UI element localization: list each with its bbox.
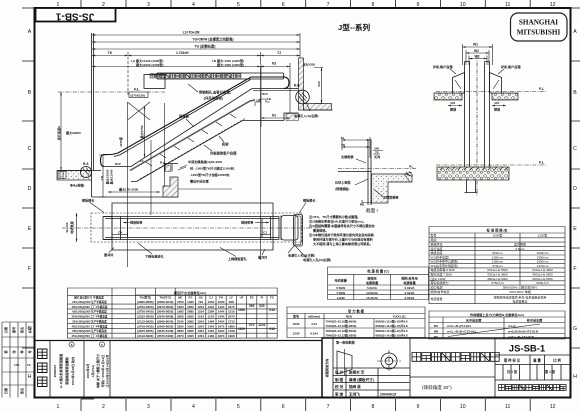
svg-text:最大11000: 最大11000 — [109, 169, 114, 184]
svg-text:655(-202)@500 生产半模高度: 655(-202)@500 生产半模高度 — [72, 329, 107, 333]
svg-text:标记: 标记 — [27, 326, 32, 334]
svg-text:电源引入(1)(右侧): 电源引入(1)(右侧) — [294, 113, 318, 118]
svg-text:5: 5 — [237, 2, 240, 8]
svg-text:护机,客户自理.: 护机,客户自理. — [501, 64, 521, 69]
ceiling opening label band — [150, 74, 241, 78]
section verticals — [127, 102, 129, 267]
svg-text:比 例: 比 例 — [553, 358, 561, 363]
svg-text:日期: 日期 — [3, 327, 8, 333]
svg-text:P.L: P.L — [409, 165, 414, 169]
svg-text:最大9750: 最大9750 — [139, 125, 144, 138]
svg-text:1996: 1996 — [228, 334, 235, 338]
svg-text:楼见尺寸(长度单位mm): 楼见尺寸(长度单位mm) — [174, 290, 206, 295]
svg-text:W1: W1 — [473, 43, 478, 47]
svg-text:920: 920 — [259, 304, 265, 308]
svg-text:254(-200)@500 生产半模高度: 254(-200)@500 生产半模高度 — [72, 300, 107, 304]
top support bracket — [284, 113, 299, 121]
svg-text:赵根木 艺: 赵根木 艺 — [348, 370, 365, 375]
svg-text:(3340-5848): (3340-5848) — [157, 315, 173, 319]
svg-text:(3113-5920): (3113-5920) — [137, 334, 153, 338]
svg-text::1200型TK尺寸也超13500时,: :1200型TK尺寸也超13500时, — [190, 172, 230, 177]
svg-text:外部装饰客户自理: 外部装饰客户自理 — [210, 151, 237, 156]
svg-text:2004年9月: 2004年9月 — [85, 364, 90, 379]
svg-text:12: 12 — [550, 2, 556, 8]
svg-text:TK(型号): TK(型号) — [140, 295, 152, 300]
svg-text:655(-200)@500 生产半模高度: 655(-200)@500 生产半模高度 — [72, 310, 107, 314]
svg-text:G: G — [573, 326, 577, 332]
svg-text:7: 7 — [327, 404, 330, 410]
svg-text:R.A: R.A — [83, 162, 89, 166]
svg-text:(2970-5635): (2970-5635) — [157, 305, 173, 309]
svg-text:2685: 2685 — [187, 310, 194, 314]
svg-text:9: 9 — [416, 2, 419, 8]
svg-text:2004年2月28日 轨内: 2004年2月28日 轨内 — [70, 357, 75, 385]
ceiling opening strip — [157, 73, 284, 79]
svg-text:JS-SB-1: JS-SB-1 — [509, 344, 546, 355]
svg-text:2.0kVA: 2.0kVA — [404, 296, 415, 300]
main drawing title 自动扶梯土建布置图 — [412, 353, 499, 362]
svg-text:6750人/h: 6750人/h — [491, 281, 504, 285]
svg-text:13.6kVA: 13.6kVA — [366, 291, 379, 295]
svg-text:970: 970 — [249, 323, 255, 327]
svg-text:10: 10 — [460, 404, 466, 410]
svg-text:TJ: TJ — [277, 51, 281, 55]
left vertical dim H — [60, 92, 62, 171]
svg-text:②2006年10月14日25井: ②2006年10月14日25井 — [105, 355, 110, 388]
svg-text:C: C — [28, 146, 32, 152]
svg-text:有中间支撑: 有中间支撑 — [527, 318, 543, 323]
svg-text:6002(2+13.9踏+10)平9.8: 6002(2+13.9踏+10)平9.8 — [376, 323, 408, 328]
svg-text:2475: 2475 — [218, 324, 225, 328]
svg-text:950: 950 — [249, 304, 255, 308]
svg-text:440: 440 — [450, 101, 455, 105]
ceiling beam rect — [144, 75, 165, 89]
svg-text:1710: 1710 — [228, 319, 235, 323]
svg-text:11kW: 11kW — [337, 296, 345, 300]
svg-text:1: 1 — [57, 404, 60, 410]
ruler numbers top — [57, 2, 556, 8]
svg-text:9000人/h: 9000人/h — [536, 281, 549, 285]
svg-text:照明,信号用: 照明,信号用 — [401, 276, 417, 281]
upper floor slab right — [304, 104, 332, 111]
svg-text:电 源 容 量 (C): 电 源 容 量 (C) — [367, 269, 388, 274]
svg-text:1100: 1100 — [238, 327, 245, 331]
svg-text:图号: 图号 — [11, 327, 16, 333]
svg-text:2.0kVA: 2.0kVA — [404, 291, 415, 295]
svg-text:6: 6 — [101, 343, 103, 347]
svg-text:H: H — [573, 374, 577, 380]
svg-text:12: 12 — [550, 404, 556, 410]
svg-text:型号: 型号 — [293, 313, 299, 318]
svg-text:8: 8 — [372, 404, 375, 410]
comb lines left/right — [121, 217, 271, 240]
svg-text:梯控用: 梯控用 — [367, 276, 376, 281]
svg-text:(2940-6055): (2940-6055) — [157, 324, 173, 328]
svg-text:1384: 1384 — [208, 310, 215, 314]
svg-text:使用环境: 使用环境 — [431, 241, 443, 246]
civil dimension table — [68, 288, 278, 338]
svg-text:145: 145 — [14, 363, 19, 367]
svg-text:室内两侧: 室内两侧 — [514, 241, 526, 246]
svg-text:14: 14 — [140, 159, 144, 163]
top-left drawing number box JS-SB-1 (rotated) — [36, 8, 116, 22]
svg-text:电源容量表: 电源容量表 — [512, 298, 527, 303]
notes column label 备注栏 — [38, 349, 48, 387]
columns — [465, 62, 490, 181]
svg-text:1254: 1254 — [197, 324, 204, 328]
svg-text:动力电源: 动力电源 — [431, 285, 443, 290]
svg-text:号: 号 — [27, 350, 32, 353]
svg-text:2.0kVA: 2.0kVA — [404, 286, 415, 290]
svg-text:5.5kW: 5.5kW — [336, 286, 345, 290]
svg-text:1000型: 1000型 — [493, 233, 503, 238]
svg-text:图 样 标 记: 图 样 标 记 — [504, 358, 521, 363]
svg-text:455(-200)@500 工厂4平模高度: 455(-200)@500 工厂4平模高度 — [72, 305, 108, 309]
svg-text:(2970-5655): (2970-5655) — [137, 329, 153, 333]
svg-text:CJ: CJ — [209, 296, 213, 300]
svg-text:380V,50Hz 三相交流380V: 380V,50Hz 三相交流380V — [503, 285, 537, 290]
svg-text:0.5m/s: 0.5m/s — [515, 247, 525, 251]
svg-text:注4)本梯仅适用于使用环境为室内完全自动扶梯,: 注4)本梯仅适用于使用环境为室内完全自动扶梯, — [309, 232, 375, 237]
svg-text:1134: 1134 — [208, 315, 215, 319]
escalator handrail line — [101, 155, 113, 167]
upper F.L — [436, 91, 546, 93]
company name 上海三菱电梯有限公司 — [499, 385, 567, 391]
svg-text:紧固梯面等紧固螺栓: 紧固梯面等紧固螺栓 — [64, 356, 69, 385]
svg-text:6: 6 — [282, 404, 285, 410]
cross mark at ceiling opening — [128, 102, 151, 120]
first angle projection symbols — [337, 351, 352, 374]
svg-text:9: 9 — [416, 404, 419, 410]
svg-text:装潢板: 装潢板 — [178, 114, 190, 119]
svg-text:1.732xH: 1.732xH — [176, 51, 189, 55]
svg-text:电机功率等 5.5kW: 电机功率等 5.5kW — [431, 267, 456, 272]
svg-text:图面规格。: 图面规格。 — [313, 228, 328, 233]
svg-text:2475: 2475 — [228, 305, 235, 309]
W+100 pit width dim — [76, 213, 78, 242]
svg-text:CK: CK — [118, 231, 123, 235]
svg-text:7840(23+15,10踏;6500): 7840(23+15,10踏;6500) — [326, 328, 357, 333]
svg-text:M1: M1 — [360, 203, 365, 207]
left wall double line — [92, 33, 94, 197]
svg-text:FG: FG — [267, 97, 272, 101]
svg-text:注1)TG、TK尺寸需要将小数点整理。: 注1)TG、TK尺寸需要将小数点整理。 — [309, 214, 360, 219]
svg-text:规格架等: 规格架等 — [241, 220, 254, 225]
svg-text:1000: 1000 — [238, 308, 245, 312]
svg-text:1054: 1054 — [197, 305, 204, 309]
svg-text:用途: 用途 — [431, 237, 437, 242]
svg-text:最大5200: 最大5200 — [302, 62, 315, 67]
N1 dim under top landing — [261, 117, 290, 119]
svg-text:1060: 1060 — [218, 300, 225, 304]
svg-text:电源容量: 电源容量 — [403, 280, 416, 285]
svg-text:440: 440 — [494, 101, 499, 105]
svg-text:共 1 张: 共 1 张 — [507, 369, 518, 374]
svg-text:2341≤ H≤ 5500: 2341≤ H≤ 5500 — [487, 268, 508, 272]
svg-text:B: B — [573, 90, 577, 96]
svg-text:W1(扶手宽度): W1(扶手宽度) — [431, 254, 450, 259]
svg-text:7040(22+13,12踏;9300): 7040(22+13,12踏;9300) — [326, 323, 357, 328]
svg-text:FI: FI — [261, 296, 264, 300]
hook label box — [129, 92, 148, 98]
middle support concrete step — [163, 177, 178, 197]
svg-text:楼层: 楼层 — [450, 107, 456, 112]
svg-text:6301≤ H≤ 5500: 6301≤ H≤ 5500 — [532, 277, 553, 281]
svg-text:电源容量: 电源容量 — [366, 280, 379, 285]
svg-text:3405: 3405 — [187, 334, 194, 338]
max9750 vertical dim — [144, 106, 146, 157]
svg-text:2250: 2250 — [187, 305, 194, 309]
svg-text:签名: 签名 — [19, 388, 24, 395]
svg-text:1464: 1464 — [208, 319, 215, 323]
SHANGHAI MITSUBISHI logo box — [511, 13, 568, 41]
svg-text:注3)因结构需要,本图编号有关尺寸不得任意改动: 注3)因结构需要,本图编号有关尺寸不得任意改动 — [309, 223, 375, 228]
svg-text:支撑型钢等: 支撑型钢等 — [382, 195, 399, 200]
svg-text:2004/9/19: 2004/9/19 — [380, 393, 396, 397]
svg-text:薛海 (模板尺寸): 薛海 (模板尺寸) — [349, 377, 375, 382]
svg-text:(2750-5450): (2750-5450) — [137, 310, 153, 314]
svg-text:1200: 1200 — [293, 332, 300, 336]
svg-text:N2: N2 — [272, 62, 276, 66]
svg-text:1510: 1510 — [228, 310, 235, 314]
svg-text:签名: 签名 — [19, 327, 24, 334]
detail circle power inlet upper — [296, 90, 310, 104]
svg-text:F: F — [573, 266, 576, 272]
svg-text:R.B: R.B — [294, 84, 300, 88]
svg-text:景冲井: 景冲井 — [104, 252, 113, 257]
svg-text:(3570-6180): (3570-6180) — [157, 334, 173, 338]
svg-text:3: 3 — [147, 404, 150, 410]
svg-text:1104: 1104 — [197, 310, 204, 314]
svg-text:2590: 2590 — [177, 324, 184, 328]
svg-text:CJ: CJ — [263, 231, 267, 235]
svg-text:5: 5 — [237, 404, 240, 410]
svg-text:B: B — [28, 90, 32, 96]
svg-text:E: E — [28, 226, 32, 232]
svg-text:(2750-5435): (2750-5435) — [137, 324, 153, 328]
svg-text:a=(LB+B+B+(TJ-)/LB: a=(LB+B+B+(TJ-)/LB — [508, 330, 539, 334]
upper floor slabs — [434, 93, 462, 100]
outer slab rect — [112, 203, 273, 250]
F.L level line left — [58, 91, 165, 93]
svg-text:(3040-5655): (3040-5655) — [157, 310, 173, 314]
svg-text:(注2) 11kW: (注2) 11kW — [431, 276, 446, 281]
svg-text:1985: 1985 — [177, 310, 184, 314]
svg-text:1484: 1484 — [208, 334, 215, 338]
svg-text:制 图: 制 图 — [335, 377, 344, 382]
svg-text:3464: 3464 — [218, 329, 225, 333]
svg-text:W3(扶手带外侧距离): W3(扶手带外侧距离) — [431, 263, 459, 268]
svg-text:楼层: 楼层 — [494, 107, 500, 112]
440 dims — [448, 105, 506, 107]
svg-text:梯级宽度: 梯级宽度 — [431, 250, 443, 255]
svg-text:6002(2+13.9踏+10)平9.6: 6002(2+13.9踏+10)平9.6 — [376, 319, 408, 324]
svg-text:第一角投影图: 第一角投影图 — [336, 340, 355, 345]
svg-text:型号: 型号 — [431, 233, 437, 238]
svg-text:SHANGHAI: SHANGHAI — [519, 19, 558, 27]
svg-text:照明/信号电源: 照明/信号电源 — [431, 289, 450, 294]
lower floor slab left hatched — [57, 171, 92, 181]
svg-text:日期: 日期 — [3, 388, 8, 394]
svg-text:(3569-6045): (3569-6045) — [157, 319, 173, 323]
svg-text:UF: UF — [240, 296, 244, 300]
svg-text:E: E — [573, 226, 577, 232]
svg-text:大不相同,请与上海三菱电梯有限公司联系。: 大不相同,请与上海三菱电梯有限公司联系。 — [313, 241, 373, 246]
svg-text:11: 11 — [505, 2, 510, 8]
svg-text:F.L: F.L — [539, 161, 545, 165]
svg-text:审 定: 审 定 — [335, 392, 344, 397]
svg-text:4: 4 — [192, 404, 195, 410]
svg-text:最大:1000 (1000型): 最大:1000 (1000型) — [217, 62, 244, 67]
svg-text:截面 I: 截面 I — [366, 207, 378, 214]
svg-text:F: F — [28, 266, 31, 272]
svg-text:电梯 关于"(楼板土建尺寸: 电梯 关于"(楼板土建尺寸 — [95, 353, 100, 388]
svg-text:A: A — [573, 29, 577, 35]
svg-text:争头(预埋): 争头(预埋) — [70, 183, 84, 188]
svg-text:FH: FH — [219, 296, 223, 300]
svg-text:天沟: 天沟 — [374, 154, 380, 159]
svg-text:11: 11 — [505, 404, 510, 410]
svg-text:1798: 1798 — [228, 329, 235, 333]
svg-text:地坑宽度: 地坑宽度 — [69, 220, 74, 233]
svg-text:(3245-6148): (3245-6148) — [157, 329, 173, 333]
skirt / truss top — [130, 100, 255, 171]
svg-text:F.L: F.L — [134, 87, 140, 92]
dim arrows — [92, 34, 300, 67]
svg-text:设 计: 设 计 — [335, 370, 344, 375]
svg-text:J型--系列: J型--系列 — [338, 22, 370, 32]
svg-text:1404: 1404 — [218, 315, 225, 319]
pit floor — [92, 196, 179, 198]
svg-text:1120: 1120 — [258, 323, 265, 327]
pier below slab — [465, 180, 478, 193]
svg-text:5: 5 — [71, 343, 73, 347]
svg-text:254(-202)@500 工厂4平模高度: 254(-202)@500 工厂4平模高度 — [72, 334, 108, 338]
svg-text:7: 7 — [327, 2, 330, 8]
truss bottom chord — [131, 121, 284, 182]
svg-text:(倾斜角度 30°): (倾斜角度 30°) — [422, 384, 452, 391]
svg-text:455(-202)@500 工厂4平模高度: 455(-202)@500 工厂4平模高度 — [72, 324, 108, 328]
svg-text:RA: RA — [434, 324, 439, 328]
svg-text:7040(22+15,10踏;6600): 7040(22+15,10踏;6600) — [326, 319, 357, 324]
balustrade double lines — [103, 217, 279, 240]
concrete step with dots — [372, 174, 413, 203]
svg-text:254(-600)@500 工厂4平模高度: 254(-600)@500 工厂4平模高度 — [72, 315, 108, 319]
svg-text:354(-200)@600 生产半模高度: 354(-200)@600 生产半模高度 — [72, 319, 107, 323]
right newel plan — [281, 216, 298, 241]
detail circle R.A — [80, 166, 91, 177]
deck line — [104, 89, 299, 167]
floor surface line to newel — [57, 170, 101, 172]
svg-text:Y(XX) (Z): Y(XX) (Z) — [392, 314, 405, 318]
svg-text:2404: 2404 — [218, 319, 225, 323]
step ticks along incline — [146, 114, 236, 166]
svg-text:D: D — [28, 186, 32, 192]
svg-text:无中间支撑: 无中间支撑 — [465, 318, 482, 323]
svg-text:TG=3M*H (支撑梁之间距离): TG=3M*H (支撑梁之间距离) — [193, 37, 234, 42]
svg-text:1464: 1464 — [208, 329, 215, 333]
svg-text:FE: FE — [250, 296, 254, 300]
svg-text:电源容量: 电源容量 — [431, 296, 443, 301]
svg-text:2805: 2805 — [187, 319, 194, 323]
svg-text:楼板楼长: 楼板楼长 — [82, 198, 95, 203]
svg-text:6.194: 6.194 — [310, 332, 318, 336]
svg-text:6802(2+14.9踏+10)平9.8: 6802(2+14.9踏+10)平9.8 — [376, 332, 408, 337]
svg-text:3005: 3005 — [187, 324, 194, 328]
svg-text:1200型: 1200型 — [538, 233, 548, 238]
svg-text:915: 915 — [269, 308, 275, 312]
svg-text:1550: 1550 — [177, 300, 184, 304]
svg-text:(370X120): (370X120) — [131, 94, 145, 98]
svg-text:JS-SB-1: JS-SB-1 — [55, 10, 94, 21]
svg-text:C: C — [573, 146, 577, 152]
svg-text:220V,50Hz 单相: 220V,50Hz 单相 — [509, 289, 530, 294]
svg-text:TG (定额长度): TG (定额长度) — [195, 44, 216, 49]
svg-text:1304: 1304 — [197, 329, 204, 333]
svg-text:1000: 1000 — [293, 322, 300, 326]
svg-text:电源引入孔(D)(右侧): 电源引入孔(D)(右侧) — [303, 257, 331, 262]
svg-text:n(N/mm): n(N/mm) — [308, 314, 321, 318]
svg-text:TK(尺寸): TK(尺寸) — [159, 295, 171, 300]
svg-text:3: 3 — [147, 2, 150, 8]
svg-text:1154: 1154 — [197, 315, 204, 319]
upper wall hatched — [299, 58, 304, 110]
svg-text:a=LL+B+(TJ-)/LL: a=LL+B+(TJ-)/LL — [447, 324, 472, 328]
svg-text:1354: 1354 — [197, 334, 204, 338]
svg-text:764: 764 — [198, 300, 203, 304]
dashed pit rect — [91, 213, 302, 242]
svg-text:10: 10 — [27, 363, 31, 367]
svg-text:15.4kVA: 15.4kVA — [366, 296, 379, 300]
svg-text:1334: 1334 — [208, 305, 215, 309]
svg-text:(2700-9450): (2700-9450) — [137, 305, 153, 309]
dimension stack lines — [92, 33, 300, 127]
svg-text:景冲井: 景冲井 — [258, 255, 267, 260]
svg-text:W+100: W+100 — [65, 222, 69, 232]
svg-text:1550mm: 1550mm — [537, 255, 549, 259]
svg-text:桁架: 桁架 — [221, 142, 229, 147]
svg-text:MITSUBISHI: MITSUBISHI — [517, 29, 561, 37]
W dims — [463, 44, 493, 65]
svg-text:ZB66667: ZB66667 — [53, 364, 57, 377]
svg-text:中间支撑高度[H]30-3000: 中间支撑高度[H]30-3000 — [188, 159, 222, 164]
svg-text:王鸿飞: 王鸿飞 — [349, 392, 360, 397]
svg-text:1054: 1054 — [208, 300, 215, 304]
svg-text:(2095-9080): (2095-9080) — [137, 300, 153, 304]
svg-text:校 对: 校 对 — [335, 384, 344, 389]
svg-text:第 1 张: 第 1 张 — [545, 369, 556, 374]
svg-text:重 量: 重 量 — [533, 358, 541, 363]
svg-text:1020: 1020 — [187, 300, 194, 304]
svg-text:913: 913 — [269, 327, 275, 331]
svg-text:1204: 1204 — [197, 319, 204, 323]
svg-text:电机容量: 电机容量 — [335, 278, 348, 283]
svg-text:4150距: 4150距 — [118, 136, 123, 147]
svg-text:1874: 1874 — [218, 334, 225, 338]
svg-text:受 力 数 据: 受 力 数 据 — [348, 308, 365, 313]
svg-text:最大≤8000: 最大≤8000 — [66, 130, 81, 135]
svg-text:提升高度H: 提升高度H — [56, 125, 61, 140]
svg-text:908: 908 — [229, 300, 234, 304]
svg-text:时: :1000型TK尺寸超过11500时,: 时: :1000型TK尺寸超过11500时, — [190, 166, 235, 171]
svg-text:R(X): R(X) — [346, 314, 352, 318]
svg-text:10: 10 — [460, 2, 466, 8]
svg-text:F.L: F.L — [539, 87, 545, 91]
svg-text:石块上表面: 石块上表面 — [334, 180, 350, 185]
TK-2000 dim — [108, 191, 160, 193]
svg-text:W2: W2 — [474, 49, 479, 53]
svg-text:W.P: W.P — [262, 92, 268, 96]
